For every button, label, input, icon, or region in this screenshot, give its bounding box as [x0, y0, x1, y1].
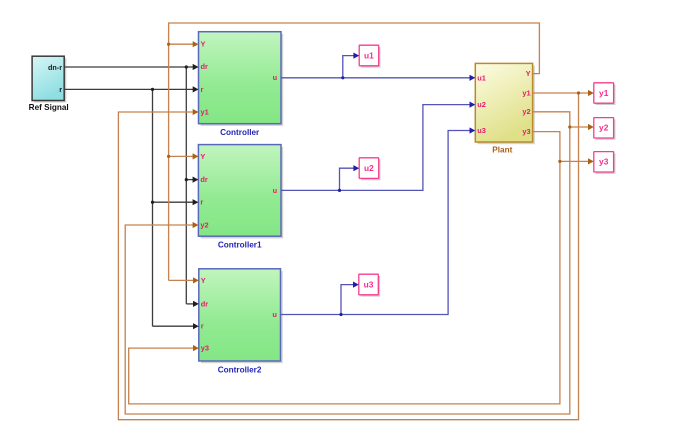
block Controller [199, 32, 284, 138]
junction r at Controller r [151, 88, 154, 91]
svg-text:Ref Signal: Ref Signal [29, 103, 69, 112]
block u3 display [359, 274, 380, 296]
wire y1 feedback loop to Controller [118, 93, 578, 420]
svg-text:Y: Y [200, 152, 205, 161]
arrow into u1 display [353, 53, 359, 59]
junction u1 branch [341, 76, 344, 79]
wire u2 branch to u2 display [340, 168, 355, 190]
svg-text:y1: y1 [201, 107, 209, 116]
svg-text:Y: Y [201, 276, 206, 285]
arrow y2 feedback at Controller1 [193, 222, 199, 228]
block u2 display [359, 158, 380, 180]
wire y1 from Plant to y1 display [533, 92, 589, 94]
wire u1 branch to u1 display [343, 56, 354, 78]
junction y1 loop [577, 91, 580, 94]
svg-text:dr: dr [200, 175, 208, 184]
svg-text:Controller2: Controller2 [218, 365, 262, 374]
wire y3 from Plant to y3 display [533, 132, 589, 162]
wire Y branch into Controller [169, 43, 194, 45]
svg-text:dr: dr [201, 62, 209, 71]
wire dr branch into Controller1 [186, 179, 193, 181]
svg-text:r: r [201, 85, 204, 94]
svg-text:dn-r: dn-r [48, 63, 62, 72]
block y2 display [594, 118, 616, 140]
wire u2 from Controller1 to Plant [281, 105, 470, 191]
svg-text:Controller1: Controller1 [218, 241, 262, 250]
svg-text:u3: u3 [364, 279, 374, 289]
arrow into y3 display [588, 158, 594, 164]
junction y3 loop [558, 160, 561, 163]
svg-text:u: u [273, 73, 278, 82]
wire dn-r vertical branch down [185, 67, 187, 304]
wire dr corner into Controller2 [186, 303, 193, 305]
svg-text:Y: Y [526, 69, 531, 78]
junction y2 loop [568, 125, 571, 128]
wire y2 from Plant to y2 display [533, 112, 589, 127]
arrow into u3 display [353, 282, 359, 288]
svg-text:u: u [272, 310, 277, 319]
wire u1 from Controller to Plant [281, 77, 470, 79]
arrow u2 at Plant [470, 102, 476, 108]
arrow r Controller2 [193, 323, 199, 329]
arrow dr Controller [193, 64, 199, 70]
svg-text:Plant: Plant [492, 146, 512, 155]
block y3 display [594, 152, 616, 174]
wire r branch into Controller1 [153, 201, 194, 203]
svg-text:u2: u2 [477, 100, 486, 109]
arrow Y at Controller2 [193, 277, 199, 283]
svg-text:y3: y3 [599, 157, 609, 167]
wire u3 from Controller2 to Plant [281, 131, 471, 315]
wire y2 feedback loop to Controller1 [125, 127, 570, 414]
svg-text:u2: u2 [364, 163, 374, 173]
wire r vertical branch down [152, 89, 154, 326]
svg-text:r: r [200, 198, 203, 207]
svg-text:u3: u3 [477, 126, 486, 135]
svg-text:Y: Y [201, 40, 206, 49]
junction u3 branch [339, 313, 342, 316]
wire Y branch into Controller1 [169, 155, 194, 157]
block Ref Signal [29, 56, 69, 112]
junction dn-r at Controller dr [185, 65, 188, 68]
wire r corner into Controller2 [153, 325, 194, 327]
svg-text:y3: y3 [201, 344, 209, 353]
arrow into y2 display [588, 124, 594, 130]
svg-text:y1: y1 [599, 88, 609, 98]
svg-text:dr: dr [201, 299, 209, 308]
svg-text:r: r [59, 85, 62, 94]
arrow u1 at Plant [470, 75, 476, 81]
wire r horizontal from Ref Signal to Controller r [64, 88, 193, 90]
junction Y at Controller [167, 43, 170, 46]
block Controller1 [198, 145, 283, 250]
arrow into y1 display [588, 90, 594, 96]
wire Y feedback from Plant around top to Y column [169, 23, 540, 280]
junction Y at Controller1 [167, 155, 170, 158]
wire y3 feedback loop to Controller2 [129, 161, 560, 404]
wire Y corner into Controller2 [169, 279, 194, 281]
arrow Y at Controller [193, 41, 199, 47]
block y1 display [594, 83, 616, 105]
wire dn-r horizontal from Ref Signal to Controller dr [64, 66, 193, 68]
svg-text:u1: u1 [477, 73, 486, 82]
block u1 display [359, 45, 380, 67]
wire u3 branch to u3 display [341, 285, 354, 315]
arrow Y at Controller1 [193, 153, 199, 159]
svg-text:y2: y2 [599, 123, 609, 133]
arrow u3 at Plant [470, 127, 476, 133]
arrow r Controller [193, 86, 199, 92]
svg-text:u1: u1 [364, 50, 374, 60]
block Controller2 [199, 269, 283, 375]
arrow dr Controller1 [193, 177, 199, 183]
svg-text:y1: y1 [522, 88, 530, 97]
arrow y1 feedback at Controller [193, 109, 199, 115]
arrow y3 feedback at Controller2 [193, 345, 199, 351]
svg-text:y3: y3 [522, 127, 530, 136]
svg-text:Controller: Controller [220, 128, 260, 137]
block Plant [475, 63, 535, 154]
arrow dr Controller2 [193, 301, 199, 307]
svg-text:u: u [273, 186, 278, 195]
svg-text:r: r [201, 322, 204, 331]
junction r at Controller1 r [151, 201, 154, 204]
arrow into u2 display [353, 165, 359, 171]
junction dn-r at Controller1 dr [185, 178, 188, 181]
svg-text:y2: y2 [200, 220, 208, 229]
junction u2 branch [338, 189, 341, 192]
svg-text:y2: y2 [522, 107, 530, 116]
arrow r Controller1 [193, 199, 199, 205]
